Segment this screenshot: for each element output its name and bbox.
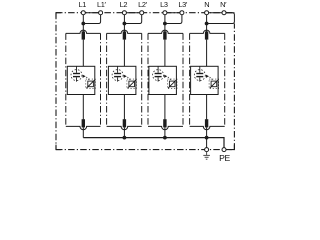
spark gap F4: electrodes (two bars) bbox=[196, 73, 203, 74]
svg-text:N′: N′ bbox=[220, 0, 227, 9]
terminal L1 (open circle) bbox=[81, 11, 85, 15]
border corner tick (top-left) bbox=[56, 13, 61, 18]
plug-in contact blade (bottom) of module M4 bbox=[205, 119, 208, 127]
spark gap F4: dashed enclosure ring bbox=[194, 70, 205, 81]
outer enclosure border: top edge (dash-dot) bbox=[56, 12, 234, 14]
terminal L2′ (open circle) bbox=[140, 11, 144, 15]
wire: contact to protection unit box M3 bbox=[164, 40, 166, 67]
wire: bottom contact to PE bus bbox=[206, 127, 208, 137]
module M4 outline: left side (dash-dot) bbox=[189, 33, 191, 126]
plug-in contact blade (top) of module M3 bbox=[163, 31, 166, 39]
module M1 outline: top edge with contact arc bbox=[66, 30, 101, 33]
terminal N′ (open circle) bbox=[222, 11, 226, 15]
module M4 outline: top edge with contact arc bbox=[190, 30, 225, 33]
spark gap F1: electrode leads bbox=[76, 66, 78, 73]
border corner tick (bottom-right) bbox=[229, 145, 234, 150]
module M3 outline: left side (dash-dot) bbox=[147, 33, 149, 126]
wire: bottom contact to PE bus bbox=[164, 127, 166, 137]
module M3 outline: bottom edge with contact arc bbox=[148, 126, 183, 129]
spark gap F4: electrode leads bbox=[199, 66, 201, 73]
junction dot: node N bbox=[205, 22, 209, 26]
spark gap F2: electrodes (two bars) bbox=[114, 73, 121, 74]
plug-in contact blade (top) of module M1 bbox=[82, 31, 85, 39]
wire: contact to protection unit box M2 bbox=[123, 40, 125, 67]
junction dot: node L2 bbox=[123, 22, 127, 26]
wire: protection unit to bottom contact M3 bbox=[164, 95, 166, 120]
svg-text:N: N bbox=[204, 0, 209, 9]
module M3 outline: top edge with contact arc bbox=[148, 30, 183, 33]
varistor RV2 (square with diagonal) bbox=[129, 81, 135, 87]
module M3 outline: right side (dash-dot) bbox=[182, 33, 184, 126]
wire: solid link L3 to L3′ along top edge bbox=[165, 12, 182, 14]
svg-text:L3′: L3′ bbox=[178, 0, 188, 9]
protection unit box (encapsulated spark gap unit) M3 bbox=[149, 66, 177, 94]
wire: L2′ branch down and left into node L2 bbox=[124, 13, 141, 24]
varistor RV3: dashed trigger-circuit outline bbox=[167, 79, 177, 89]
spark gap F1: dashed enclosure ring bbox=[71, 70, 82, 81]
plug-in contact blade (bottom) of module M2 bbox=[123, 119, 126, 127]
junction dot: bus at L3 bbox=[163, 136, 167, 140]
wire: L1 terminal drop to junction and module contact bbox=[82, 13, 84, 33]
module M1 outline: left side (dash-dot) bbox=[65, 33, 67, 126]
protection unit box (encapsulated spark gap unit) M1 bbox=[67, 66, 95, 94]
varistor RV4: dashed trigger-circuit outline bbox=[209, 79, 219, 89]
wire: L1′ branch down and left into node L1 bbox=[83, 13, 100, 24]
wire: L2 terminal drop to junction and module contact bbox=[123, 13, 125, 33]
wire: N&#8242; branch right along border, down and left into node N bbox=[207, 13, 235, 24]
module M4 outline: right side (dash-dot) bbox=[224, 33, 226, 126]
junction dot: bus at L2 bbox=[123, 136, 127, 140]
protection unit box (encapsulated spark gap unit) M4 bbox=[191, 66, 219, 94]
svg-text:L1′: L1′ bbox=[97, 0, 107, 9]
terminal PE (open circle) bbox=[222, 148, 226, 152]
wire: bottom contact to PE bus bbox=[82, 127, 84, 137]
wire: L3′ branch down and left into node L3 bbox=[165, 13, 182, 24]
plug-in contact blade (top) of module M2 bbox=[123, 31, 126, 39]
svg-text:PE: PE bbox=[219, 153, 230, 163]
terminal N (open circle) bbox=[205, 11, 209, 15]
svg-text:L3: L3 bbox=[160, 0, 168, 9]
wire: contact to protection unit box M4 bbox=[206, 40, 208, 67]
module M2 outline: top edge with contact arc bbox=[107, 30, 142, 33]
wire: solid link N to N′ along top edge bbox=[207, 12, 235, 14]
wire: protection unit to bottom contact M2 bbox=[123, 95, 125, 120]
wire: protection unit to bottom contact M1 bbox=[82, 95, 84, 120]
plug-in contact blade (top) of module M4 bbox=[205, 31, 208, 39]
module M2 outline: bottom edge with contact arc bbox=[107, 126, 142, 129]
svg-text:L1: L1 bbox=[79, 0, 87, 9]
module M4 outline: bottom edge with contact arc bbox=[190, 126, 225, 129]
trigger arrow of module M1 (dashed line with arrowhead) bbox=[83, 75, 86, 78]
outer enclosure border: right edge (dash-dot) bbox=[233, 24, 235, 150]
wire: N terminal drop to junction and module contact bbox=[206, 13, 208, 33]
varistor RV1 (square with diagonal) bbox=[88, 81, 94, 87]
wire: solid link L2 to L2′ along top edge bbox=[124, 12, 141, 14]
plug-in contact blade (bottom) of module M3 bbox=[163, 119, 166, 127]
varistor RV4 (square with diagonal) bbox=[211, 81, 217, 87]
wire: contact to protection unit box M1 bbox=[82, 40, 84, 67]
spark gap F2: dashed enclosure ring bbox=[112, 70, 123, 81]
wire: L3 terminal drop to junction and module contact bbox=[164, 13, 166, 33]
terminal L3′ (open circle) bbox=[180, 11, 184, 15]
svg-text:L2: L2 bbox=[120, 0, 128, 9]
terminal: earth electrode connection (open circle) bbox=[205, 148, 209, 152]
varistor RV3 (square with diagonal) bbox=[169, 81, 175, 87]
outer enclosure border: left edge (dash-dot) bbox=[55, 13, 57, 150]
wire: bus drop to earth terminal bbox=[206, 138, 208, 148]
module M1 outline: right side (dash-dot) bbox=[100, 33, 102, 126]
varistor RV1: dashed trigger-circuit outline bbox=[86, 79, 96, 89]
wire: bottom contact to PE bus bbox=[123, 127, 125, 137]
terminal L3 (open circle) bbox=[163, 11, 167, 15]
ground (earth symbol) bbox=[203, 152, 210, 159]
spark gap F1: electrodes (two bars) bbox=[73, 73, 80, 74]
wire: solid link L1 to L1′ along top edge bbox=[83, 12, 100, 14]
spark gap F3: dashed enclosure ring bbox=[153, 70, 164, 81]
junction dot: node L1 bbox=[81, 22, 85, 26]
spark gap F2: electrode leads bbox=[117, 66, 119, 73]
trigger arrow of module M3 (dashed line with arrowhead) bbox=[164, 75, 167, 78]
module M2 outline: left side (dash-dot) bbox=[106, 33, 108, 126]
outer enclosure border: bottom edge (dash-dot) bbox=[56, 149, 234, 151]
junction dot: node L3 bbox=[163, 22, 167, 26]
module M2 outline: right side (dash-dot) bbox=[141, 33, 143, 126]
trigger arrow of module M4 (dashed line with arrowhead) bbox=[206, 75, 209, 78]
spark gap F3: electrode leads bbox=[157, 66, 159, 73]
border corner tick (bottom-left) bbox=[56, 145, 61, 150]
protection unit box (encapsulated spark gap unit) M2 bbox=[108, 66, 135, 94]
varistor RV2: dashed trigger-circuit outline bbox=[127, 79, 137, 89]
module M1 outline: bottom edge with contact arc bbox=[66, 126, 101, 129]
terminal L1′ (open circle) bbox=[99, 11, 103, 15]
wire: protection unit to bottom contact M4 bbox=[206, 95, 208, 120]
wire: common PE bus bbox=[83, 138, 224, 148]
trigger arrow of module M2 (dashed line with arrowhead) bbox=[124, 75, 127, 78]
terminal L2 (open circle) bbox=[122, 11, 126, 15]
junction dot: bus at N bbox=[205, 136, 209, 140]
svg-text:L2′: L2′ bbox=[138, 0, 148, 9]
spark gap F3: electrodes (two bars) bbox=[155, 73, 162, 74]
plug-in contact blade (bottom) of module M1 bbox=[82, 119, 85, 127]
